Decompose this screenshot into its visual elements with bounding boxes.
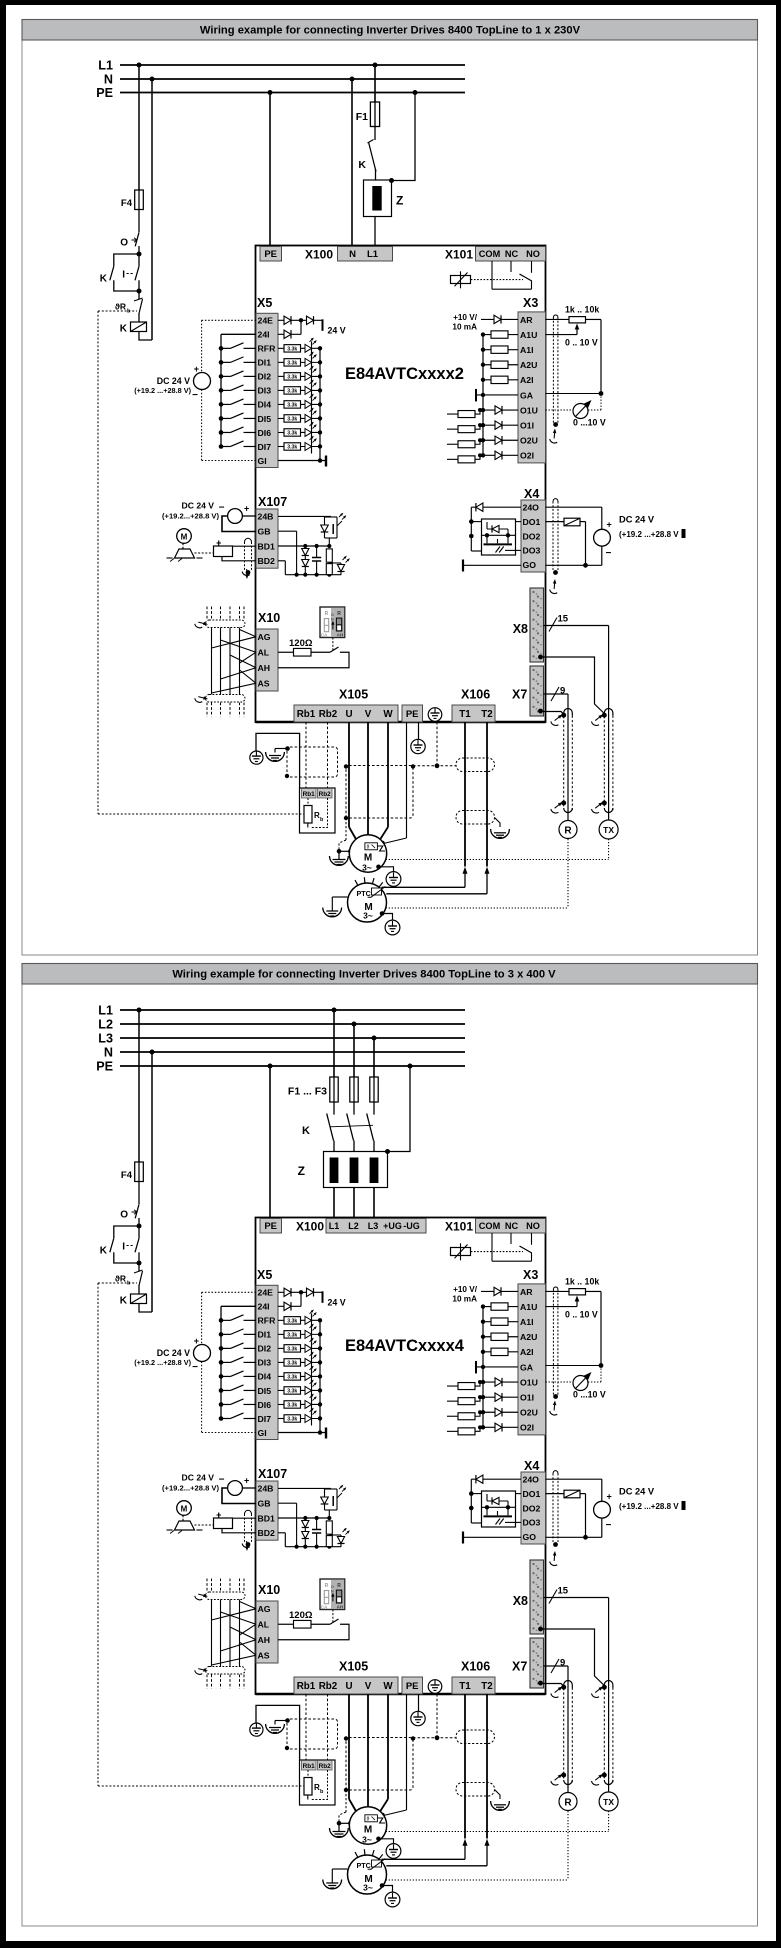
svg-text:10 mA: 10 mA bbox=[452, 1295, 477, 1304]
svg-text:DI1: DI1 bbox=[258, 1330, 272, 1340]
svg-text:X8: X8 bbox=[513, 622, 528, 636]
svg-text:Wiring example for connecting: Wiring example for connecting Inverter D… bbox=[172, 969, 556, 981]
svg-text:X7: X7 bbox=[512, 1660, 527, 1674]
svg-text:Rb1: Rb1 bbox=[303, 791, 316, 798]
svg-text:X100: X100 bbox=[305, 248, 333, 262]
svg-text:(+19.2...+28.8 V): (+19.2...+28.8 V) bbox=[162, 1484, 219, 1493]
svg-text:3.3k: 3.3k bbox=[287, 1361, 297, 1367]
svg-text:X101: X101 bbox=[445, 248, 473, 262]
svg-text:Z: Z bbox=[298, 1164, 305, 1178]
svg-text:(+19.2...+28.8 V): (+19.2...+28.8 V) bbox=[162, 512, 219, 521]
svg-text:3.3k: 3.3k bbox=[287, 417, 297, 423]
svg-text:+UG: +UG bbox=[383, 1221, 402, 1231]
svg-text:F4: F4 bbox=[121, 198, 133, 209]
svg-text:+: + bbox=[607, 520, 612, 530]
svg-text:AS: AS bbox=[258, 1651, 270, 1661]
svg-text:15: 15 bbox=[558, 614, 569, 625]
svg-text:24B: 24B bbox=[258, 1484, 274, 1494]
svg-text:24 V: 24 V bbox=[328, 325, 346, 335]
svg-text:NO: NO bbox=[526, 1221, 540, 1231]
svg-text:F4: F4 bbox=[121, 1170, 133, 1181]
svg-text:A2I: A2I bbox=[520, 375, 534, 385]
svg-text:(+19.2 ...+28.8 V): (+19.2 ...+28.8 V) bbox=[134, 1358, 191, 1367]
svg-text:X8: X8 bbox=[513, 1594, 528, 1608]
svg-text:N: N bbox=[104, 72, 113, 86]
svg-text:3.3k: 3.3k bbox=[287, 445, 297, 451]
svg-text:DO3: DO3 bbox=[523, 1518, 541, 1528]
svg-text:(+19.2 ...+28.8 V: (+19.2 ...+28.8 V bbox=[619, 1502, 679, 1511]
svg-text:3.3k: 3.3k bbox=[287, 1333, 297, 1339]
svg-text:AR: AR bbox=[520, 315, 533, 325]
svg-text:3.3k: 3.3k bbox=[287, 1375, 297, 1381]
svg-text:CA: CA bbox=[321, 632, 328, 637]
svg-text:M: M bbox=[181, 1504, 188, 1513]
svg-text:BD1: BD1 bbox=[258, 541, 276, 551]
svg-text:Rb2: Rb2 bbox=[319, 1681, 338, 1692]
svg-text:DI5: DI5 bbox=[258, 414, 272, 424]
svg-text:Wiring example for connecting: Wiring example for connecting Inverter D… bbox=[200, 25, 581, 37]
svg-text:X4: X4 bbox=[524, 487, 539, 501]
svg-text:K: K bbox=[100, 1246, 108, 1257]
svg-text:L1: L1 bbox=[367, 249, 379, 260]
svg-text:X3: X3 bbox=[523, 1268, 538, 1282]
svg-text:O1I: O1I bbox=[520, 1392, 534, 1402]
svg-text:PE: PE bbox=[96, 86, 113, 100]
svg-text:Z: Z bbox=[396, 194, 403, 208]
svg-text:−: − bbox=[219, 503, 225, 514]
svg-text:L1: L1 bbox=[98, 58, 113, 72]
svg-text:A1I: A1I bbox=[520, 345, 534, 355]
svg-text:T2: T2 bbox=[481, 1681, 493, 1692]
svg-text:DI1: DI1 bbox=[258, 358, 272, 368]
svg-text:PE: PE bbox=[96, 1059, 113, 1073]
svg-text:Rb2: Rb2 bbox=[319, 709, 338, 720]
svg-text:COM: COM bbox=[479, 249, 501, 259]
svg-text:GO: GO bbox=[523, 560, 537, 570]
svg-text:GB: GB bbox=[258, 527, 271, 537]
svg-text:DI2: DI2 bbox=[258, 1344, 272, 1354]
svg-text:NC: NC bbox=[505, 249, 519, 259]
svg-text:A2U: A2U bbox=[520, 1332, 537, 1342]
svg-text:+: + bbox=[244, 504, 249, 514]
svg-text:DC 24 V: DC 24 V bbox=[157, 376, 190, 386]
svg-text:O2I: O2I bbox=[520, 451, 534, 461]
svg-text:24O: 24O bbox=[523, 503, 540, 513]
svg-text:K: K bbox=[358, 159, 366, 171]
svg-text:3.3k: 3.3k bbox=[287, 1389, 297, 1395]
svg-text:K: K bbox=[120, 324, 128, 335]
svg-text:O1U: O1U bbox=[520, 1377, 538, 1387]
svg-text:−: − bbox=[606, 548, 612, 559]
svg-text:X5: X5 bbox=[257, 296, 272, 310]
svg-text:V: V bbox=[365, 709, 372, 720]
svg-text:DI7: DI7 bbox=[258, 442, 272, 452]
svg-text:+: + bbox=[607, 1492, 612, 1502]
svg-text:NC: NC bbox=[505, 1221, 519, 1231]
svg-text:RFR: RFR bbox=[258, 344, 277, 354]
svg-text:ϑR: ϑR bbox=[115, 302, 126, 312]
svg-text:PTC: PTC bbox=[357, 1861, 371, 1870]
svg-text:X106: X106 bbox=[461, 1660, 490, 1674]
svg-text:X106: X106 bbox=[461, 688, 490, 702]
svg-text:N: N bbox=[104, 1045, 113, 1059]
svg-text:DC 24 V: DC 24 V bbox=[619, 1487, 655, 1497]
svg-text:PTC: PTC bbox=[357, 889, 371, 898]
svg-text:3.3k: 3.3k bbox=[287, 389, 297, 395]
svg-text:W: W bbox=[383, 709, 393, 720]
svg-text:PE: PE bbox=[264, 1221, 277, 1232]
svg-text:U: U bbox=[345, 1681, 352, 1692]
svg-text:Rb2: Rb2 bbox=[319, 1763, 332, 1770]
svg-text:−: − bbox=[606, 1520, 612, 1531]
svg-text:AL: AL bbox=[258, 648, 270, 658]
svg-text:U: U bbox=[345, 709, 352, 720]
svg-text:+10 V/: +10 V/ bbox=[453, 1285, 478, 1294]
svg-text:GB: GB bbox=[258, 1499, 271, 1509]
svg-text:GA: GA bbox=[520, 390, 534, 400]
svg-text:24I: 24I bbox=[258, 1302, 270, 1312]
svg-text:DI7: DI7 bbox=[258, 1414, 272, 1424]
svg-text:ϑ: ϑ bbox=[367, 844, 370, 850]
svg-text:GI: GI bbox=[258, 1428, 267, 1438]
svg-text:−: − bbox=[192, 390, 198, 401]
svg-text:T1: T1 bbox=[459, 709, 471, 720]
svg-text:X10: X10 bbox=[258, 1583, 280, 1597]
svg-text:L3: L3 bbox=[98, 1031, 113, 1045]
svg-text:3.3k: 3.3k bbox=[287, 1403, 297, 1409]
svg-text:M: M bbox=[181, 532, 188, 541]
svg-text:DC 24 V: DC 24 V bbox=[182, 1473, 215, 1483]
svg-text:3.3k: 3.3k bbox=[287, 1319, 297, 1325]
svg-text:A2I: A2I bbox=[520, 1347, 534, 1357]
svg-text:ϑR: ϑR bbox=[115, 1274, 126, 1284]
svg-text:I: I bbox=[122, 270, 125, 281]
svg-text:X7: X7 bbox=[512, 688, 527, 702]
svg-text:N: N bbox=[349, 249, 356, 260]
svg-text:DO1: DO1 bbox=[523, 517, 541, 527]
svg-text:X101: X101 bbox=[445, 1220, 473, 1234]
svg-text:X4: X4 bbox=[524, 1459, 539, 1473]
svg-text:K: K bbox=[120, 1296, 128, 1307]
svg-text:R: R bbox=[325, 1583, 329, 1589]
svg-text:X100: X100 bbox=[296, 1220, 324, 1234]
svg-text:PE: PE bbox=[264, 249, 277, 260]
svg-text:3~: 3~ bbox=[363, 1883, 373, 1893]
svg-text:AH: AH bbox=[258, 663, 271, 673]
svg-text:24B: 24B bbox=[258, 512, 274, 522]
svg-text:R: R bbox=[564, 826, 572, 837]
svg-text:TX: TX bbox=[603, 825, 614, 835]
svg-text:24E: 24E bbox=[258, 1288, 274, 1298]
svg-text:Rb1: Rb1 bbox=[303, 1763, 316, 1770]
svg-text:AH: AH bbox=[258, 1635, 271, 1645]
svg-text:3.3k: 3.3k bbox=[287, 375, 297, 381]
svg-text:A1U: A1U bbox=[520, 1302, 537, 1312]
svg-text:AL: AL bbox=[258, 1620, 270, 1630]
svg-text:T1: T1 bbox=[459, 1681, 471, 1692]
svg-text:120Ω: 120Ω bbox=[289, 638, 313, 649]
svg-text:L2: L2 bbox=[348, 1221, 359, 1231]
svg-text:9: 9 bbox=[560, 1658, 565, 1669]
svg-text:3.3k: 3.3k bbox=[287, 361, 297, 367]
svg-text:T2: T2 bbox=[481, 709, 493, 720]
svg-text:(+19.2 ...+28.8 V: (+19.2 ...+28.8 V bbox=[619, 530, 679, 539]
svg-text:+: + bbox=[194, 364, 199, 374]
svg-text:GO: GO bbox=[523, 1532, 537, 1542]
svg-text:O1I: O1I bbox=[520, 420, 534, 430]
svg-text:I: I bbox=[122, 1242, 125, 1253]
svg-text:AG: AG bbox=[258, 632, 271, 642]
svg-text:X107: X107 bbox=[258, 1467, 287, 1481]
svg-text:-UG: -UG bbox=[403, 1221, 420, 1231]
svg-text:24O: 24O bbox=[523, 1475, 540, 1485]
svg-text:BD2: BD2 bbox=[258, 556, 276, 566]
svg-text:3.3k: 3.3k bbox=[287, 1417, 297, 1423]
svg-text:PE: PE bbox=[406, 1681, 419, 1692]
svg-text:1k .. 10k: 1k .. 10k bbox=[565, 305, 599, 315]
svg-text:N: N bbox=[331, 617, 334, 622]
svg-text:24I: 24I bbox=[258, 330, 270, 340]
svg-text:DI5: DI5 bbox=[258, 1386, 272, 1396]
svg-text:R: R bbox=[564, 1798, 572, 1809]
svg-text:E84AVTCxxxx2: E84AVTCxxxx2 bbox=[345, 365, 464, 383]
svg-text:Rb1: Rb1 bbox=[297, 1681, 316, 1692]
svg-text:A1I: A1I bbox=[520, 1317, 534, 1327]
svg-text:X5: X5 bbox=[257, 1268, 272, 1282]
svg-text:AH: AH bbox=[337, 1604, 344, 1609]
svg-text:0 .. 10 V: 0 .. 10 V bbox=[565, 1310, 598, 1320]
svg-text:24E: 24E bbox=[258, 316, 274, 326]
svg-text:DI2: DI2 bbox=[258, 372, 272, 382]
svg-text:AG: AG bbox=[258, 1604, 271, 1614]
svg-text:L3: L3 bbox=[368, 1221, 379, 1231]
svg-text:+: + bbox=[194, 1336, 199, 1346]
svg-text:X105: X105 bbox=[339, 688, 368, 702]
svg-text:AR: AR bbox=[520, 1287, 533, 1297]
svg-text:R: R bbox=[337, 1583, 341, 1589]
svg-text:RFR: RFR bbox=[258, 1316, 277, 1326]
svg-text:3.3k: 3.3k bbox=[287, 431, 297, 437]
svg-text:O2U: O2U bbox=[520, 1408, 538, 1418]
svg-text:−: − bbox=[192, 1362, 198, 1373]
svg-text:3.3k: 3.3k bbox=[287, 1347, 297, 1353]
svg-text:24 V: 24 V bbox=[328, 1297, 346, 1307]
svg-text:−: − bbox=[219, 1475, 225, 1486]
svg-text:+10 V/: +10 V/ bbox=[453, 313, 478, 322]
svg-text:0 ...10 V: 0 ...10 V bbox=[573, 1390, 606, 1400]
svg-text:3~: 3~ bbox=[363, 911, 373, 921]
svg-text:(+19.2 ...+28.8 V): (+19.2 ...+28.8 V) bbox=[134, 386, 191, 395]
svg-text:GI: GI bbox=[258, 456, 267, 466]
svg-text:O1U: O1U bbox=[520, 405, 538, 415]
svg-text:GA: GA bbox=[520, 1362, 534, 1372]
svg-text:3.3k: 3.3k bbox=[287, 403, 297, 409]
svg-text:DO2: DO2 bbox=[523, 1503, 541, 1513]
svg-text:O: O bbox=[120, 238, 128, 249]
svg-text:AH: AH bbox=[337, 632, 344, 637]
svg-text:DI6: DI6 bbox=[258, 428, 272, 438]
svg-text:1k .. 10k: 1k .. 10k bbox=[565, 1277, 599, 1287]
svg-text:BD1: BD1 bbox=[258, 1513, 276, 1523]
svg-text:BD2: BD2 bbox=[258, 1528, 276, 1538]
svg-text:DO1: DO1 bbox=[523, 1489, 541, 1499]
svg-text:O2I: O2I bbox=[520, 1423, 534, 1433]
svg-text:3~: 3~ bbox=[362, 1835, 372, 1845]
svg-text:0 ...10 V: 0 ...10 V bbox=[573, 418, 606, 428]
svg-text:K: K bbox=[302, 1125, 310, 1137]
svg-text:O: O bbox=[120, 1210, 128, 1221]
svg-text:R: R bbox=[337, 611, 341, 617]
svg-text:E84AVTCxxxx4: E84AVTCxxxx4 bbox=[345, 1337, 465, 1355]
svg-text:DC 24 V: DC 24 V bbox=[619, 515, 655, 525]
svg-text:R: R bbox=[325, 611, 329, 617]
svg-text:N: N bbox=[331, 1589, 334, 1594]
svg-text:DO3: DO3 bbox=[523, 546, 541, 556]
svg-text:Rb2: Rb2 bbox=[319, 791, 332, 798]
svg-text:X105: X105 bbox=[339, 1660, 368, 1674]
svg-text:Rb1: Rb1 bbox=[297, 709, 316, 720]
svg-text:10 mA: 10 mA bbox=[452, 323, 477, 332]
svg-text:L2: L2 bbox=[98, 1017, 113, 1031]
svg-text:ϑ: ϑ bbox=[367, 1816, 370, 1822]
svg-text:DI3: DI3 bbox=[258, 1358, 272, 1368]
svg-text:AS: AS bbox=[258, 679, 270, 689]
svg-text:K: K bbox=[100, 274, 108, 285]
svg-text:O2U: O2U bbox=[520, 436, 538, 446]
svg-text:DC 24 V: DC 24 V bbox=[182, 501, 215, 511]
svg-text:DC 24 V: DC 24 V bbox=[157, 1348, 190, 1358]
svg-text:NO: NO bbox=[526, 249, 540, 259]
svg-text:DI4: DI4 bbox=[258, 1372, 272, 1382]
svg-text:+: + bbox=[244, 1476, 249, 1486]
svg-text:A1U: A1U bbox=[520, 330, 537, 340]
svg-text:9: 9 bbox=[560, 686, 565, 697]
svg-text:F1 ... F3: F1 ... F3 bbox=[288, 1086, 327, 1098]
svg-text:3~: 3~ bbox=[362, 863, 372, 873]
svg-text:X3: X3 bbox=[523, 296, 538, 310]
svg-text:DI3: DI3 bbox=[258, 386, 272, 396]
svg-text:DO2: DO2 bbox=[523, 531, 541, 541]
svg-text:L1: L1 bbox=[98, 1003, 113, 1017]
svg-text:X10: X10 bbox=[258, 611, 280, 625]
svg-text:0 .. 10 V: 0 .. 10 V bbox=[565, 338, 598, 348]
svg-text:W: W bbox=[383, 1681, 393, 1692]
svg-text:V: V bbox=[365, 1681, 372, 1692]
svg-text:CA: CA bbox=[321, 1604, 328, 1609]
svg-text:DI4: DI4 bbox=[258, 400, 272, 410]
svg-text:DI6: DI6 bbox=[258, 1400, 272, 1410]
svg-text:TX: TX bbox=[603, 1797, 614, 1807]
svg-text:3.3k: 3.3k bbox=[287, 347, 297, 353]
svg-text:X107: X107 bbox=[258, 495, 287, 509]
svg-text:COM: COM bbox=[479, 1221, 501, 1231]
svg-text:L1: L1 bbox=[329, 1221, 340, 1231]
svg-text:PE: PE bbox=[406, 709, 419, 720]
svg-text:15: 15 bbox=[558, 1586, 569, 1597]
svg-text:A2U: A2U bbox=[520, 360, 537, 370]
svg-text:F1: F1 bbox=[356, 111, 368, 123]
svg-text:120Ω: 120Ω bbox=[289, 1610, 313, 1621]
